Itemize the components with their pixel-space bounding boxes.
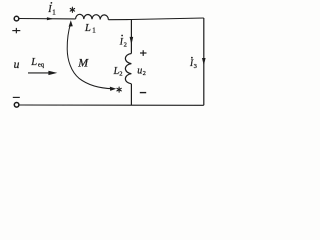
wire bottom [19,104,204,106]
svg-text:2: 2 [124,41,127,48]
wire top right segment [108,18,203,20]
wire middle branch upper [130,20,132,54]
mutual coupling arc M [67,23,112,89]
inductor L2 [125,54,131,84]
arrow Leq [28,71,57,75]
label + (u2) [140,50,147,56]
svg-text:1: 1 [92,26,96,34]
arrow I3 [202,58,206,65]
wire top left segment [19,18,75,20]
svg-text:2: 2 [119,70,122,77]
svg-text:L: L [84,23,91,34]
label minus (left) [13,96,20,98]
wire right vertical [203,18,205,105]
terminal bottom-left [14,103,19,108]
svg-text:u: u [14,59,20,71]
label I3 [189,57,197,70]
arrow I1 on wire [47,17,54,20]
svg-text:u: u [137,66,142,77]
wire middle branch lower [130,84,132,105]
arrow I2 [130,37,134,45]
label u2 [137,66,146,78]
asterisk L1 [70,7,74,12]
label minus (u2) [140,92,146,94]
svg-text:L: L [30,57,37,68]
arrowhead M top [69,20,73,26]
svg-text:eq: eq [38,61,45,68]
svg-text:3: 3 [194,63,197,70]
inductor L1 [76,14,109,19]
label L2 [113,66,123,78]
label Leq [30,57,44,69]
label I2 [119,35,127,49]
arrowhead M bottom [110,87,116,91]
label L1 [84,23,96,34]
label I1 [47,2,56,16]
asterisk L2 [117,87,121,92]
svg-text:M: M [77,56,89,70]
terminal top-left [14,16,19,21]
svg-text:2: 2 [143,70,146,77]
svg-text:1: 1 [52,8,56,16]
label + (left) [12,28,20,33]
